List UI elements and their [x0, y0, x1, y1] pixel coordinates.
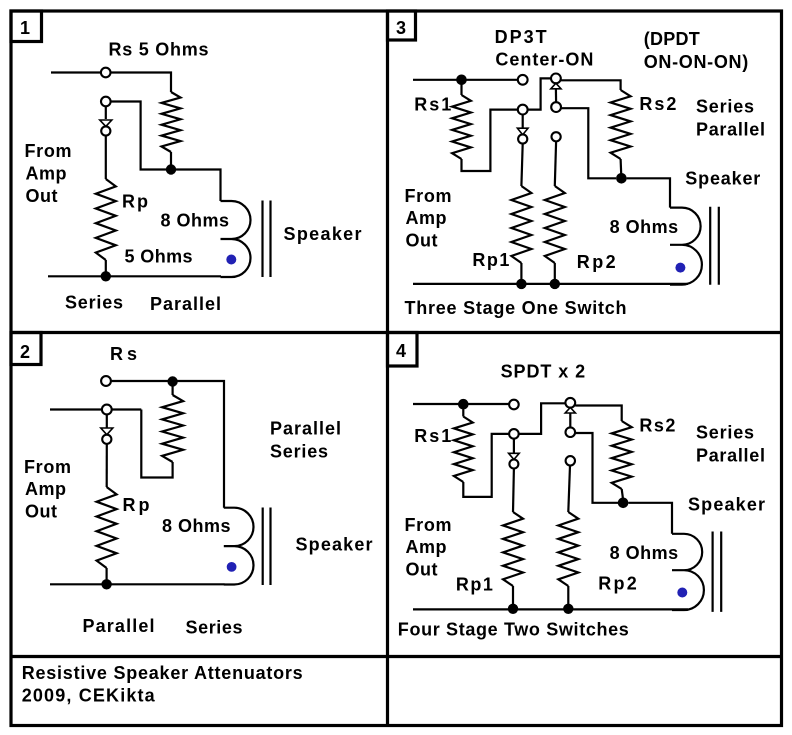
svg-text:8 Ohms: 8 Ohms: [610, 543, 679, 563]
wire bottom rail: [50, 583, 225, 585]
svg-text:3: 3: [396, 18, 406, 38]
wire from S1a to Rs top corner: [111, 73, 172, 93]
svg-text:Rp2: Rp2: [577, 252, 616, 272]
svg-text:Rs1: Rs1: [414, 95, 451, 115]
svg-text:Amp: Amp: [25, 479, 66, 499]
wire Rs bottom to node: [170, 152, 172, 170]
speaker SP2 coil: [224, 508, 254, 585]
svg-text:Parallel: Parallel: [696, 120, 765, 140]
speaker SP2 core lines: [263, 508, 271, 586]
svg-text:Series: Series: [270, 442, 328, 462]
switch lever arm: [105, 106, 107, 119]
switch contact circle C6 row3-right: [552, 132, 561, 141]
speaker SP3 blue dot: [675, 263, 685, 273]
node F junction: [616, 173, 627, 184]
resistor Rs1: [454, 417, 473, 483]
resistor Rs2: [612, 421, 632, 489]
switch lever arm D3 to D4: [569, 413, 571, 427]
resistor Rs2: [611, 90, 631, 159]
resistor Rp2: [558, 512, 578, 586]
switch contact circle S2a: [101, 376, 111, 386]
wire C3 right to Rs2 top: [561, 80, 621, 90]
wire Rp bottom: [105, 568, 107, 584]
resistor Rp: [96, 179, 116, 260]
svg-text:2009, CEKikta: 2009, CEKikta: [22, 686, 156, 706]
node E junction: [456, 75, 467, 86]
svg-text:8 Ohms: 8 Ohms: [610, 217, 679, 237]
wire Rs2 bottom to node F: [619, 159, 622, 174]
switch lever arm C3 to C4: [555, 89, 557, 103]
switch contact circle C1 top-left: [518, 75, 528, 85]
wire node E to Rs1: [460, 85, 462, 96]
node J junction: [618, 498, 629, 509]
resistor Rs: [162, 395, 183, 462]
wire node C to Rs top: [172, 386, 174, 395]
wire Rp2 bottom: [567, 586, 569, 606]
panel number box 2: [11, 333, 41, 365]
svg-text:From: From: [405, 186, 452, 206]
wire C5 to Rp1: [521, 144, 522, 186]
svg-text:Parallel: Parallel: [270, 419, 341, 439]
svg-text:Parallel: Parallel: [150, 294, 221, 314]
resistor Rp: [97, 487, 117, 568]
svg-text:Rs2: Rs2: [639, 416, 675, 436]
switch contact circle S2b: [102, 405, 112, 415]
node H junction: [550, 279, 560, 289]
svg-text:From: From: [405, 515, 452, 535]
wire node A to speaker: [176, 170, 221, 202]
svg-text:Parallel: Parallel: [696, 446, 765, 466]
svg-text:Speaker: Speaker: [688, 495, 765, 515]
svg-text:Out: Out: [406, 231, 438, 251]
node D junction bottom: [101, 579, 111, 589]
wire C4 right down to node F: [561, 108, 616, 178]
wire lever to Rp top: [105, 136, 107, 179]
wire bottom rail: [413, 608, 688, 610]
wire Rp bottom: [105, 260, 107, 276]
resistor Rp2: [545, 186, 565, 263]
wire S2b to branch corner: [112, 408, 142, 410]
switch lever triangle row3-left: [509, 453, 520, 459]
switch contact circle D4 row2-right: [566, 427, 576, 437]
svg-text:8 Ohms: 8 Ohms: [162, 516, 231, 536]
wire D2 right riser to D3: [519, 403, 566, 434]
wire bottom rail: [413, 283, 688, 285]
wire lever to Rp top: [106, 444, 108, 487]
switch lever triangle row3-left: [517, 128, 528, 135]
svg-text:Series: Series: [696, 423, 754, 443]
wire bottom rail: [48, 275, 221, 277]
svg-text:Out: Out: [25, 502, 57, 522]
svg-text:Rp1: Rp1: [456, 575, 493, 595]
node L junction: [563, 604, 573, 614]
wire Rs1 bottom loop up to row2: [463, 434, 509, 497]
wire C6 to Rp2: [555, 141, 556, 186]
node K junction: [508, 604, 518, 614]
svg-text:Out: Out: [26, 186, 58, 206]
wire node J to speaker: [628, 503, 672, 534]
resistor Rs1: [452, 95, 471, 159]
panel number box 4: [388, 333, 418, 367]
wire node I to Rs1: [462, 409, 464, 417]
svg-text:Four Stage Two Switches: Four Stage Two Switches: [398, 620, 629, 640]
svg-text:Speaker: Speaker: [296, 535, 373, 555]
switch contact circle D6 row3-right: [566, 456, 575, 465]
wire amp input top: [413, 403, 509, 405]
svg-text:Rs 5 Ohms: Rs 5 Ohms: [109, 40, 209, 60]
speaker SP1 blue dot: [226, 255, 236, 265]
switch contact circle C2 row2-left: [518, 105, 528, 115]
svg-text:5 Ohms: 5 Ohms: [125, 247, 193, 267]
wire D2 down to lever: [513, 439, 515, 453]
wire Rs bottom loop to S2b branch: [141, 410, 172, 478]
svg-text:4: 4: [396, 341, 406, 361]
wire amp input top: [51, 71, 101, 73]
speaker SP1 core lines: [263, 201, 271, 278]
switch lever circle C5: [518, 134, 527, 143]
switch lever circle: [102, 435, 111, 444]
svg-text:Series: Series: [696, 97, 754, 117]
svg-text:ON-ON-ON): ON-ON-ON): [644, 52, 749, 72]
svg-text:Rp2: Rp2: [598, 574, 637, 594]
speaker SP3 core lines: [710, 207, 719, 285]
switch lever triangle: [100, 120, 112, 126]
switch lever triangle: [101, 428, 113, 435]
wire Rp1 bottom: [512, 586, 514, 606]
svg-text:(DPDT: (DPDT: [644, 29, 700, 49]
resistor Rp1: [511, 186, 531, 263]
speaker SP4 core lines: [713, 532, 722, 612]
svg-text:Resistive Speaker Attenuators: Resistive Speaker Attenuators: [22, 663, 303, 683]
svg-text:Center-ON: Center-ON: [495, 50, 593, 70]
svg-text:From: From: [25, 141, 72, 161]
wire from S2a right to corner and down to speaker: [111, 381, 224, 508]
wire from S1b right and down to node: [111, 102, 166, 170]
wire amp input: [50, 408, 102, 410]
panel number box 1: [11, 11, 42, 42]
panel number box 3: [388, 11, 416, 40]
switch lever triangle under D3: [565, 408, 575, 414]
svg-text:Series: Series: [186, 618, 243, 638]
node I junction: [458, 399, 469, 410]
wire Rp2 bottom: [554, 263, 556, 280]
svg-text:Rp1: Rp1: [472, 250, 509, 270]
svg-text:Parallel: Parallel: [83, 616, 155, 636]
vertical divider between left and right columns: [386, 11, 389, 726]
speaker SP2 blue dot: [227, 562, 237, 572]
svg-text:2: 2: [20, 342, 30, 362]
switch contact circle D1 top-left: [509, 400, 519, 410]
switch contact circle C4 row2-right: [551, 102, 561, 112]
svg-text:DP3T: DP3T: [495, 27, 547, 47]
svg-text:Three Stage One Switch: Three Stage One Switch: [405, 298, 627, 318]
svg-text:Rs2: Rs2: [639, 94, 676, 114]
resistor Rs: [162, 92, 181, 152]
horizontal divider between row 1 and row 2: [11, 331, 782, 334]
node B junction bottom: [101, 271, 111, 281]
svg-text:From: From: [24, 457, 71, 477]
wire C2 down to lever: [522, 115, 524, 128]
resistor Rp1: [503, 512, 523, 586]
speaker SP4 coil: [672, 534, 704, 610]
wire Rs2 bottom to node J: [622, 489, 623, 499]
switch contact circle S1b: [101, 97, 111, 107]
node A junction: [166, 164, 176, 174]
wire D4 right down to node J: [575, 433, 618, 503]
wire D5 to Rp1: [512, 469, 515, 513]
svg-text:Speaker: Speaker: [284, 224, 362, 244]
switch lever triangle under C3: [551, 83, 561, 89]
svg-text:Amp: Amp: [406, 537, 447, 557]
wire amp input top: [413, 79, 518, 81]
node G junction: [516, 279, 526, 289]
switch contact circle S1a: [101, 68, 111, 78]
switch lever arm: [106, 414, 108, 427]
switch lever circle: [101, 126, 110, 135]
wire D3 right to Rs2 top: [575, 406, 622, 422]
svg-text:Speaker: Speaker: [685, 169, 760, 189]
node C junction on top wire: [167, 376, 177, 386]
switch lever circle D5: [509, 460, 518, 469]
wire Rs1 bottom loop up to row2: [462, 110, 518, 171]
speaker SP3 coil: [670, 208, 702, 285]
svg-text:Series: Series: [65, 293, 123, 313]
speaker SP1 coil: [221, 201, 251, 277]
svg-text:1: 1: [20, 18, 30, 38]
wire C2 right riser to C3: [528, 78, 551, 109]
svg-text:Rs1: Rs1: [414, 426, 451, 446]
svg-text:8 Ohms: 8 Ohms: [161, 211, 230, 231]
switch contact circle D2 row2-left: [509, 429, 519, 439]
switch contact circle C3 top-right: [551, 74, 561, 84]
svg-text:Amp: Amp: [26, 164, 67, 184]
wire Rp1 bottom: [520, 263, 522, 280]
horizontal divider above footer: [11, 655, 782, 658]
svg-text:SPDT x 2: SPDT x 2: [501, 362, 585, 382]
svg-text:Out: Out: [406, 560, 438, 580]
wire node F to speaker: [627, 178, 670, 207]
wire D6 to Rp2: [568, 466, 570, 513]
svg-text:Amp: Amp: [406, 208, 447, 228]
switch contact circle D3 top-right: [565, 398, 575, 408]
speaker SP4 blue dot: [677, 588, 687, 598]
